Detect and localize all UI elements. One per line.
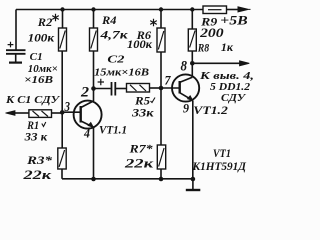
svg-text:R2: R2 [37,15,53,29]
C1 value label [24,52,58,86]
wire node3 down to R3 [61,112,63,148]
wire R3 bottom corner to rail [61,169,63,179]
svg-text:9: 9 [183,101,189,116]
svg-text:К1НТ591Д: К1НТ591Д [192,159,247,173]
resistor R5 [127,84,150,93]
output label [199,70,254,104]
svg-text:7: 7 [165,73,171,88]
wire bottom rail [62,178,195,180]
wire VT1.2 emitter to rail [192,101,194,180]
R3 label [22,153,53,182]
svg-text:C1: C1 [30,52,43,63]
R1 tick mark [42,122,46,127]
wire output node8 to right [192,62,241,64]
R2 adjust mark [52,14,59,21]
node VT1.1 emitter rail [91,177,96,182]
wire R6 bottom to node 7 [160,52,162,88]
resistor R7 [157,145,165,169]
R9 label [199,14,248,41]
svg-text:4: 4 [83,127,90,141]
svg-text:22к: 22к [124,156,154,170]
node 2 [91,86,96,91]
resistor R8 [188,29,196,51]
C2 label [94,53,149,78]
svg-text:33к: 33к [131,106,155,120]
R4 label [99,13,128,41]
R6 label [127,28,153,51]
svg-text:VT1.1: VT1.1 [99,123,127,137]
wire R8 top tap [191,10,193,30]
svg-text:×16В: ×16В [24,75,53,86]
wire input to R1 [14,112,29,114]
svg-text:15мк×16В: 15мк×16В [94,66,149,78]
R7 label [124,141,154,170]
svg-text:22к: 22к [22,168,52,182]
part label VT1 [192,148,247,173]
wire top rail right segment to supply [227,9,240,11]
capacitor C1 [6,42,26,63]
svg-text:100к: 100к [28,31,55,45]
R1 label [24,118,49,143]
svg-text:8: 8 [181,59,188,75]
+5V supply arrow [238,7,251,12]
wire VT1.1 emitter to rail [93,127,95,179]
svg-text:R8: R8 [197,41,209,55]
resistor R9 [203,6,227,14]
wire R6 top tap [160,10,162,29]
svg-text:200: 200 [199,26,225,40]
wire R4 bottom to node 2 [93,51,95,89]
wire R2 bottom to node 3 [61,51,63,113]
svg-text:R4: R4 [101,13,117,27]
svg-text:СДУ: СДУ [221,92,246,104]
node R2 top [60,7,64,11]
svg-text:4,7к: 4,7к [99,27,128,41]
wire R2 top tap [62,10,64,29]
node 3 [60,110,65,115]
svg-text:1к: 1к [221,40,234,54]
wire R5 to node 7 [150,87,162,89]
transistor VT1.2 [172,74,199,101]
wire VT1.1 base lead [62,111,80,113]
svg-text:R7*: R7* [128,141,153,155]
svg-text:К С1 СДУ: К С1 СДУ [5,94,61,106]
wire left drop to C1 [15,10,17,50]
node R4 top [91,7,95,11]
svg-text:33 к: 33 к [24,129,49,143]
svg-text:R3*: R3* [26,153,53,167]
wire R7 bottom to rail [160,169,162,179]
wire R4 top tap [93,10,95,29]
wire R8 bottom to node 8 [191,51,193,63]
wire VT1.1 collector to node 2 [93,89,95,102]
R2 label [28,15,55,45]
wire top rail left segment [16,9,203,11]
svg-text:+5В: +5В [220,14,248,28]
resistor R4 [90,28,98,51]
svg-text:C2: C2 [107,53,125,65]
resistor R6 [157,28,165,52]
svg-text:10мк×: 10мк× [28,64,58,75]
wire node2 to C2 [94,88,111,90]
node 8 [190,61,195,66]
node R6 top [159,7,163,11]
svg-text:VT1.2: VT1.2 [193,103,228,117]
resistor R1 [29,110,52,118]
wire VT1.2 collector to node 8 [191,63,193,77]
R8 label [197,40,234,55]
R5 tick mark [151,98,156,103]
R6 adjust mark [150,19,157,26]
wire node7 to VT1.2 base [161,87,180,89]
R5 label [131,94,155,120]
capacitor C2 [98,79,116,96]
node R7 rail [159,177,164,182]
svg-text:100к: 100к [127,37,153,51]
transistor VT1.1 [74,101,102,129]
ground [186,179,201,190]
node ground rail [191,177,196,182]
wire C2 to R5 [116,88,127,90]
resistor R3 [58,148,66,169]
input arrow К С1 СДУ [6,111,16,116]
svg-text:2: 2 [80,85,90,101]
output arrow [240,61,250,66]
wire R1 to node 3 [52,112,63,114]
svg-text:3: 3 [64,100,70,115]
wire node7 down to R7 [160,88,162,145]
node R8 top [190,7,194,11]
resistor R2 [59,28,67,51]
node 7 [159,86,164,91]
